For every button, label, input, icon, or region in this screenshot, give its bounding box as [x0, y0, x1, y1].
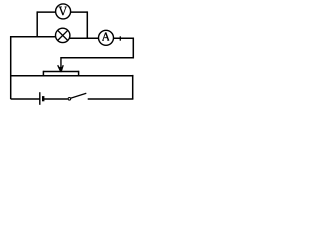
- rheostat slider arrowhead fill: [59, 67, 63, 72]
- rheostat slider arrowhead left barb: [58, 65, 61, 72]
- wire: lamp row left horizontal: [11, 36, 56, 38]
- wire: voltmeter right vertical drop: [86, 11, 88, 39]
- voltmeter V1: [56, 4, 71, 19]
- rheostat slider arrowhead right barb: [61, 65, 63, 72]
- wire: battery to switch horizontal: [43, 98, 67, 100]
- wire: bottom left horizontal: [11, 98, 40, 100]
- wire: upper right vertical: [132, 38, 134, 59]
- tick mark on ammeter output wire: [119, 36, 121, 40]
- wire: rheostat slider arm: [60, 57, 62, 72]
- wire: lower right vertical: [132, 75, 134, 99]
- wire: ammeter right horizontal: [114, 37, 135, 39]
- battery B1 long plate: [39, 92, 41, 105]
- resistor R1 right edge: [78, 71, 80, 76]
- wire: lamp to ammeter horizontal: [70, 37, 99, 39]
- wire: left main vertical: [10, 36, 12, 99]
- resistor R1 left edge: [42, 71, 44, 76]
- wire: voltmeter branch left horizontal: [37, 11, 56, 13]
- wire: voltmeter left vertical drop: [36, 11, 38, 37]
- wire: voltmeter branch right horizontal: [70, 11, 87, 13]
- battery B1 short plate: [42, 96, 44, 101]
- ammeter A1: [99, 30, 114, 45]
- switch S1 pivot: [68, 98, 71, 101]
- lamp L1: [56, 28, 70, 42]
- wire: slider horizontal: [61, 57, 134, 59]
- switch S1 lever: [71, 93, 87, 98]
- wire: rheostat row horizontal: [11, 75, 134, 77]
- wire: switch to right horizontal: [88, 98, 134, 100]
- resistor R1 (rheostat box) top edge: [43, 71, 78, 73]
